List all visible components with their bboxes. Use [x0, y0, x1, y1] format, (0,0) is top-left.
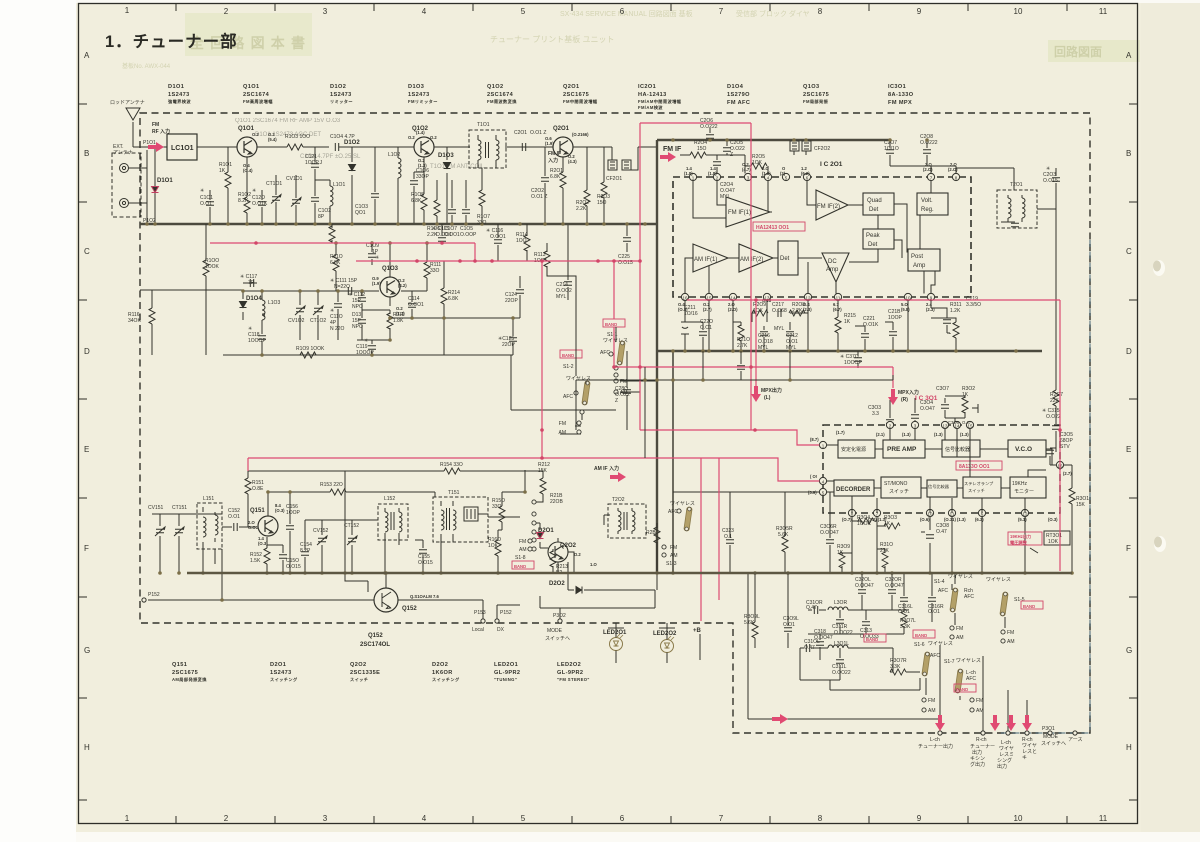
capacitor C205 [726, 140, 728, 155]
bus junction dots [671, 349, 1018, 353]
vertical R101 [227, 147, 229, 224]
R150 vertical [501, 492, 503, 506]
svg-text:スイッチ: スイッチ [889, 489, 909, 495]
LED wires [608, 623, 700, 663]
svg-text:O.O15: O.O15 [1043, 178, 1058, 184]
capacitor C208 [890, 140, 956, 166]
vertical x443 down [443, 318, 445, 355]
oscillator labels [128, 226, 547, 356]
svg-text:3.3K: 3.3K [890, 664, 901, 670]
red junction dots [254, 241, 1062, 460]
svg-text:STV: STV [1060, 444, 1070, 450]
red wire MPX L [755, 300, 757, 386]
capacitor C323 [726, 492, 734, 573]
vertical wire x645 [644, 367, 646, 458]
svg-text:キ: キ [1022, 755, 1027, 761]
svg-text:S1-4: S1-4 [934, 579, 945, 585]
svg-text:D1O1: D1O1 [168, 84, 184, 90]
red labels LED [603, 630, 677, 637]
IC301 pin drops to bus [852, 517, 1025, 573]
top tick marks [176, 3, 1067, 11]
svg-text:2: 2 [224, 814, 229, 823]
wire Q201 to CF201/IC [573, 147, 657, 170]
svg-text:5.6K: 5.6K [778, 532, 789, 538]
svg-text:FM IF: FM IF [663, 146, 682, 153]
svg-text:HA-12413: HA-12413 [638, 92, 667, 98]
red wire +B supply [701, 458, 719, 621]
svg-text:N 22O: N 22O [330, 326, 345, 332]
svg-text:2SC174OL: 2SC174OL [360, 642, 390, 648]
C212 vertical [789, 322, 791, 351]
AM wire R153 [268, 491, 330, 493]
svg-text:Z: Z [615, 398, 618, 404]
FM AM contacts SI-1 [614, 379, 618, 394]
svg-text:(1.9): (1.9) [372, 281, 381, 286]
top column numbers [125, 6, 1108, 16]
coil L102 [397, 147, 399, 224]
svg-text:FM局部発振: FM局部発振 [803, 98, 829, 105]
capacitor C125 [512, 318, 514, 355]
svg-text:6.8K: 6.8K [411, 198, 422, 204]
transistor Q151 [258, 516, 278, 536]
capacitor C124 [519, 276, 521, 318]
svg-text:33O: 33O [477, 220, 487, 226]
switch contact circles [922, 626, 1005, 712]
svg-text:10: 10 [1014, 814, 1023, 823]
svg-text:6.8K: 6.8K [550, 174, 561, 180]
svg-text:19KHz: 19KHz [1012, 481, 1028, 487]
SI-4 switch bar [950, 588, 958, 612]
svg-text:ST/MONO: ST/MONO [884, 481, 907, 487]
capacitor C106 [414, 172, 424, 224]
svg-text:I C 2O1: I C 2O1 [820, 161, 843, 168]
svg-text:(1.3): (1.3) [902, 432, 911, 437]
svg-text:O.O222: O.O222 [920, 140, 938, 146]
svg-text:6.8K: 6.8K [330, 260, 341, 266]
resistor R101 [225, 172, 231, 188]
svg-text:1OOOP: 1OOOP [356, 350, 374, 356]
capacitor C114 [412, 291, 420, 318]
IC201 dashed box [673, 177, 971, 297]
red wire MPX bottom [687, 300, 1060, 571]
stereo lamp switch block [963, 477, 1001, 498]
svg-text:Reg.: Reg. [921, 207, 934, 213]
labels near IC301 top [868, 386, 1089, 508]
wire antenna to LC101 [133, 146, 167, 148]
capacitor C370 [857, 351, 859, 368]
svg-text:CV1O1: CV1O1 [286, 176, 303, 182]
svg-text:O.O15: O.O15 [418, 560, 433, 566]
svg-text:11: 11 [1099, 7, 1108, 16]
svg-text:AM IF(2): AM IF(2) [740, 257, 763, 263]
svg-text:Z: Z [730, 152, 733, 158]
R213 resistor [552, 549, 554, 552]
T201 right coil [1021, 195, 1023, 222]
resistor R205 [745, 166, 768, 173]
svg-text:O.2: O.2 [430, 135, 437, 140]
BAND box red SI-2 [560, 350, 582, 358]
svg-text:D2O2: D2O2 [432, 662, 448, 668]
capacitor C115 [441, 224, 443, 243]
capacitor C206 [709, 128, 711, 140]
capacitor C204 [713, 162, 721, 165]
svg-text:BAND: BAND [1023, 604, 1035, 609]
red wire AM IF line [248, 458, 819, 481]
svg-text:2SC1675: 2SC1675 [172, 670, 198, 676]
svg-text:1.5K: 1.5K [250, 558, 261, 564]
SI-7 switch bar [955, 669, 963, 693]
svg-text:1OOOP: 1OOOP [844, 360, 862, 366]
junction dots on bus [145, 222, 647, 226]
svg-text:(O.3): (O.3) [275, 508, 285, 513]
svg-text:Amp: Amp [913, 263, 926, 269]
svg-text:FMリミッター: FMリミッター [408, 98, 438, 105]
svg-text:( O!: ( O! [810, 474, 817, 479]
svg-text:MODE: MODE [547, 628, 563, 634]
svg-text:FM: FM [928, 698, 935, 704]
svg-text:L152: L152 [384, 496, 395, 502]
svg-text:CV151: CV151 [148, 505, 164, 511]
bottom tick marks [176, 816, 1067, 824]
svg-text:AFC: AFC [938, 588, 948, 594]
svg-text:8P: 8P [318, 214, 325, 220]
AM row labels [148, 462, 570, 648]
wire jacks to P102 line [129, 150, 148, 224]
capacitor C156 [289, 492, 291, 573]
svg-text:33O: 33O [492, 504, 502, 510]
transistor Q152 [374, 588, 398, 612]
label D102 [330, 84, 353, 105]
capacitor C103 [374, 147, 376, 224]
svg-text:1K: 1K [884, 521, 891, 527]
svg-text:AM: AM [1007, 639, 1015, 645]
svg-text:1.2K: 1.2K [950, 308, 961, 314]
svg-text:S1-2: S1-2 [563, 364, 574, 370]
svg-text:(O.31) (1.3): (O.31) (1.3) [944, 517, 966, 522]
svg-text:O.O1 Z: O.O1 Z [531, 194, 547, 200]
svg-text:AM: AM [519, 547, 527, 553]
SI-2 switch bar [582, 381, 590, 405]
wireless tan labels [928, 574, 1011, 664]
svg-text:FM: FM [519, 539, 526, 545]
diagonal wire set [830, 678, 920, 690]
svg-text:Amp: Amp [826, 267, 839, 273]
svg-text:F: F [84, 544, 89, 553]
svg-text:10: 10 [1014, 7, 1023, 16]
svg-text:Q2O2: Q2O2 [560, 543, 577, 549]
extra dots [643, 378, 792, 382]
svg-text:1.O: 1.O [590, 562, 597, 567]
svg-text:(2.O): (2.O) [923, 167, 933, 172]
L151 to bus [203, 549, 215, 573]
R310 resistor [884, 549, 886, 553]
svg-text:O.47: O.47 [962, 420, 972, 425]
svg-text:P152: P152 [148, 592, 160, 598]
svg-text:AFC: AFC [563, 394, 573, 400]
C370 label [840, 354, 862, 366]
svg-text:(6.3): (6.3) [975, 517, 984, 522]
FM front end labels [110, 100, 633, 300]
capacitor C214 [567, 224, 569, 300]
svg-text:シング: シング [997, 757, 1012, 764]
svg-text:15O: 15O [697, 146, 707, 152]
svg-text:(2.O): (2.O) [948, 167, 958, 172]
svg-text:(R): (R) [901, 397, 908, 403]
wire LC101 to Q101 [197, 146, 237, 148]
trimmer CT152 [351, 520, 353, 573]
svg-text:1K: 1K [844, 319, 851, 325]
svg-text:1K6OR: 1K6OR [432, 670, 453, 676]
svg-text:15K: 15K [1076, 502, 1086, 508]
svg-text:CT1O1: CT1O1 [266, 181, 282, 187]
svg-text:FM: FM [956, 626, 963, 632]
svg-text:Det: Det [869, 207, 879, 213]
junction dots on top bus [671, 138, 929, 142]
svg-text:ワイヤレス: ワイヤレス [986, 577, 1011, 583]
RT301 wiper [1025, 548, 1038, 573]
T202 coils [617, 508, 619, 534]
D202 to P302 wire [559, 608, 561, 619]
svg-text:AM IF 入力: AM IF 入力 [594, 465, 619, 472]
SI-6 switch bar [922, 652, 930, 676]
svg-text:(L): (L) [764, 395, 771, 401]
IC301 pin red voltage labels [808, 430, 1072, 522]
svg-text:(O.3): (O.3) [1048, 517, 1058, 522]
svg-text:D1O1 1S2473 AGC DET: D1O1 1S2473 AGC DET [255, 132, 321, 138]
svg-text:P3O2: P3O2 [553, 613, 566, 619]
svg-text:FM MPX: FM MPX [888, 100, 912, 106]
svg-text:D1O1: D1O1 [157, 178, 173, 184]
svg-text:✳: ✳ [200, 188, 204, 194]
Volt Reg block [917, 193, 948, 215]
svg-text:R153 22O: R153 22O [320, 482, 343, 488]
FM AM contact labels [928, 626, 1015, 714]
top white edge [76, 0, 1200, 3]
svg-text:AM: AM [956, 635, 964, 641]
svg-text:FM/AM中間周波増幅: FM/AM中間周波増幅 [638, 98, 682, 105]
label Q101 [243, 84, 273, 105]
left white margin strip [0, 0, 76, 842]
svg-text:FM: FM [1007, 630, 1014, 636]
IC301 top pins [886, 421, 973, 428]
svg-text:3: 3 [323, 7, 328, 16]
svg-text:O.O222: O.O222 [700, 124, 718, 130]
svg-text:P3O1: P3O1 [1042, 726, 1055, 732]
red MPX L arrow [751, 386, 761, 402]
vertical drop D101 [154, 147, 156, 224]
svg-text:L3OR: L3OR [834, 600, 847, 606]
svg-text:F: F [1126, 544, 1131, 553]
svg-text:Post: Post [911, 254, 923, 260]
svg-text:1O/1O: 1O/1O [884, 146, 899, 152]
svg-text:6.8K: 6.8K [448, 296, 459, 302]
svg-text:BAND: BAND [956, 687, 968, 692]
svg-text:8.2K: 8.2K [238, 198, 249, 204]
thick center vertical bus [656, 140, 658, 573]
svg-text:NPO: NPO [352, 304, 363, 310]
svg-text:1: 1 [125, 6, 130, 15]
P152 wire to Q152 [148, 600, 520, 619]
resistor R109 on bus [300, 352, 316, 358]
ground bus FM row [140, 223, 657, 225]
svg-text:(1.7): (1.7) [836, 430, 845, 435]
svg-text:Q2O2: Q2O2 [350, 662, 367, 668]
AFC contact SI-1 [609, 352, 618, 377]
svg-text:2: 2 [224, 7, 229, 16]
resistor R203 [603, 147, 605, 224]
svg-text:Q1O3: Q1O3 [382, 266, 399, 272]
svg-text:11: 11 [1099, 814, 1108, 823]
svg-text:MYL: MYL [774, 326, 785, 332]
svg-text:S1-3: S1-3 [666, 561, 677, 567]
svg-text:9: 9 [917, 814, 922, 823]
C220 drop [685, 322, 703, 351]
long feedback loop wire [748, 573, 1027, 733]
svg-text:1.8K: 1.8K [393, 318, 404, 324]
svg-text:CV1O2: CV1O2 [288, 318, 305, 324]
8A1330 red box label [956, 461, 1002, 470]
svg-text:2.2K: 2.2K [576, 206, 587, 212]
svg-text:22OP: 22OP [505, 298, 518, 304]
svg-text:Det: Det [780, 256, 790, 262]
resistor R204 [690, 152, 706, 158]
right margin slightly lighter paper [1141, 0, 1200, 842]
LED201 [610, 634, 624, 651]
pin16 drop C211 [681, 301, 689, 351]
svg-text:(8.7): (8.7) [810, 437, 819, 442]
svg-text:RF 入力: RF 入力 [152, 128, 170, 135]
svg-text:C2O1: C2O1 [514, 130, 527, 136]
svg-text:MODE: MODE [1043, 734, 1059, 740]
svg-text:1OK: 1OK [488, 543, 499, 549]
red FM IF loop [640, 123, 751, 430]
diode D202 [558, 538, 574, 590]
svg-text:T2O1: T2O1 [1010, 182, 1023, 188]
C218 vertical [885, 322, 893, 351]
IC201 black labels [684, 118, 1063, 420]
DECORDER block [834, 480, 874, 496]
svg-text:FM: FM [559, 421, 566, 427]
svg-text:O.O1: O.O1 [228, 514, 240, 520]
capacitor C119 [357, 340, 372, 355]
resistor R107 [481, 168, 483, 224]
svg-text:(5.8): (5.8) [901, 307, 910, 312]
C318 vertical [819, 634, 821, 660]
R304 resistor [852, 520, 862, 522]
svg-text:Q152: Q152 [402, 606, 417, 612]
svg-text:1OOK: 1OOK [205, 264, 220, 270]
vertical x576 [575, 380, 577, 430]
svg-text:リミッター: リミッター [330, 98, 353, 105]
pin12 drop [807, 301, 809, 351]
svg-text:1: 1 [125, 814, 130, 823]
vertical wire x790 mid [789, 351, 791, 380]
wire to pin16 IC301 [1050, 464, 1064, 466]
pin14 drop [732, 301, 734, 351]
IC301 internal wires [827, 429, 1057, 513]
SI-3 switch bar [684, 507, 692, 531]
svg-text:PRE AMP: PRE AMP [887, 446, 917, 453]
T151 dashed box [433, 497, 488, 542]
svg-text:N=22O: N=22O [334, 284, 350, 290]
resistor R305R [782, 492, 788, 573]
svg-text:D1O3: D1O3 [438, 153, 454, 159]
svg-text:O.2: O.2 [574, 552, 581, 557]
label Q201 [563, 84, 598, 105]
svg-text:9: 9 [917, 7, 922, 16]
svg-text:DC: DC [828, 259, 837, 265]
svg-text:C: C [84, 247, 90, 256]
svg-text:FM: FM [152, 122, 159, 128]
svg-text:D1O2: D1O2 [344, 140, 360, 146]
diode D103 [446, 147, 448, 224]
green stamp top left [185, 13, 312, 56]
svg-text:R-ch: R-ch [976, 737, 987, 743]
svg-text:O.O68: O.O68 [772, 308, 787, 314]
IC301 right pin [1056, 461, 1063, 468]
L151 dashed box [197, 503, 222, 549]
capacitor C201 [522, 143, 525, 151]
svg-text:7P: 7P [248, 280, 255, 286]
capacitor C152 [222, 526, 256, 528]
svg-text:(O.2166): (O.2166) [572, 132, 589, 137]
svg-text:AM: AM [928, 708, 936, 714]
svg-text:D: D [1126, 347, 1132, 356]
svg-text:✳: ✳ [252, 188, 256, 194]
svg-text:MYL: MYL [556, 294, 567, 300]
pin11 R215 [837, 301, 839, 317]
svg-text:入力: 入力 [548, 157, 558, 164]
R20? resistor by SI-3 [654, 523, 660, 573]
left row letters [84, 51, 90, 752]
vertical to AM row [511, 355, 616, 471]
resistor R106 2.2K [436, 180, 438, 224]
svg-text:CV152: CV152 [313, 528, 329, 534]
svg-text:ロッドアンテナ: ロッドアンテナ [110, 100, 145, 106]
resistor R112 [389, 310, 391, 314]
AM mix wire [305, 519, 378, 521]
svg-text:8: 8 [818, 7, 823, 16]
svg-text:3.3K: 3.3K [900, 624, 911, 630]
resistor R105 [423, 157, 425, 224]
trimmer CT101 [275, 175, 277, 224]
SI-2 labels [563, 364, 591, 400]
svg-text:R154 33O: R154 33O [440, 462, 463, 468]
svg-text:E: E [84, 445, 89, 454]
19KHz monitor block [1010, 477, 1046, 498]
EXT antenna dashed box [112, 153, 141, 217]
red arrow FM RF input [148, 142, 164, 152]
svg-text:O.OO47: O.OO47 [820, 530, 839, 536]
oscillator top wire [243, 290, 420, 292]
svg-text:CF2O1: CF2O1 [606, 176, 622, 182]
vertical Q101 emitter R102 [246, 157, 248, 224]
svg-text:1S2473: 1S2473 [408, 92, 430, 98]
svg-text:AM IF(1): AM IF(1) [694, 257, 717, 263]
svg-text:強電界検波: 強電界検波 [168, 98, 191, 105]
resistor R103 [287, 144, 303, 150]
svg-text:2.7K: 2.7K [737, 343, 748, 349]
pin9 C219 [931, 301, 947, 333]
svg-text:Q2O1: Q2O1 [563, 84, 580, 90]
C310R capacitor [808, 609, 812, 611]
FM AM contacts SI-2 [577, 421, 581, 434]
svg-text:CT151: CT151 [172, 505, 187, 511]
label D101 [168, 84, 191, 105]
C311L vertical [800, 648, 840, 680]
C308 capacitor [926, 535, 934, 538]
capacitor C154 [304, 520, 306, 573]
